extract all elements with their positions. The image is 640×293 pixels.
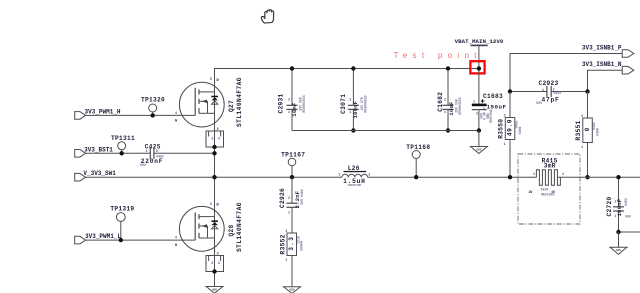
svg-text:100nF: 100nF [353,101,359,119]
wire ISNB1_P sense [510,54,622,92]
junction Q28 source/box [212,269,216,273]
wire C425 to SW node [154,152,215,154]
svg-text:GND: GND [289,289,294,292]
svg-text:50V 0402: 50V 0402 [300,189,304,204]
svg-text:TP1319: TP1319 [110,206,134,213]
svg-text:RE0000623: RE0000623 [363,95,367,112]
svg-text:0: 0 [584,127,591,132]
svg-text:2: 2 [288,99,290,103]
svg-text:1: 1 [288,111,290,115]
junction C2720 gnd [616,230,620,234]
svg-text:2: 2 [285,230,287,234]
svg-text:1: 1 [338,174,340,178]
svg-text:50V: 50V [140,163,146,167]
svg-text:RE0004655: RE0004655 [458,97,462,114]
svg-text:1: 1 [285,259,287,263]
svg-text:2: 2 [614,201,616,205]
capacitor C2923 47pF [510,80,588,105]
svg-text:R3550: R3550 [498,119,505,139]
port 3V3_ISNB1_N [582,61,634,74]
wire cap ground bus [292,130,479,132]
junction sense P [508,89,512,93]
svg-text:0402: 0402 [554,91,562,95]
svg-text:,150uF: ,150uF [483,104,507,111]
svg-text:GND: GND [476,148,481,151]
svg-text:3V3_PWM1_H: 3V3_PWM1_H [85,109,121,116]
svg-text:2: 2 [476,113,478,117]
svg-text:5: 5 [210,78,212,82]
svg-text:2: 2 [211,262,213,266]
svg-text:3V3_ISNB1_P: 3V3_ISNB1_P [582,44,622,51]
transistor Q27 [175,77,243,132]
svg-text:5: 5 [210,203,212,207]
svg-text:TP1320: TP1320 [141,97,165,104]
svg-text:GND: GND [212,288,217,291]
svg-text:C3071: C3071 [340,94,347,114]
svg-text:2: 2 [211,137,213,141]
svg-text:63mW: 63mW [595,128,599,136]
svg-text:TP1311: TP1311 [111,135,135,142]
junction SW/C425 [212,151,216,155]
testpoint TP1320 [141,97,165,118]
junction R3551 bottom on bus [585,175,589,179]
capacitor C2720 100nF [606,175,631,232]
inductor L26 1.5uH [338,165,370,187]
junction R3550 bottom on bus [508,175,512,179]
svg-text:Q28: Q28 [228,224,235,236]
svg-text:1: 1 [288,212,290,216]
svg-text:1: 1 [504,143,506,147]
svg-text:3.3: 3.3 [288,236,295,251]
junction cap gnd bus [477,128,481,132]
Q27 package pin box [205,131,224,147]
shunt resistor R415 3mR [529,158,565,197]
svg-text:RE01305: RE01305 [541,193,554,197]
svg-text:C1682: C1682 [437,92,444,112]
svg-text:0402: 0402 [624,198,628,206]
svg-text:VBAT_MAIN_12V0: VBAT_MAIN_12V0 [455,38,504,45]
wire ISNB1_N sense [588,70,623,91]
wire PWM1_L to gate [86,239,196,241]
junction red box node [477,66,481,70]
wire top bus VBAT [215,69,479,83]
svg-text:TP1168: TP1168 [406,144,430,151]
red highlight box [470,61,484,73]
svg-text:1: 1 [473,100,475,104]
svg-text:1020: 1020 [540,188,548,192]
svg-text:TP1167: TP1167 [281,152,305,159]
svg-text:C1683: C1683 [483,93,503,100]
testpoint TP1167 [281,152,305,180]
svg-text:1: 1 [581,146,583,150]
svg-text:500mW: 500mW [300,241,304,251]
svg-text:4: 4 [175,237,177,241]
svg-text:100nF: 100nF [617,199,623,217]
wire SW bus left [86,176,342,178]
svg-text:R3551: R3551 [575,120,582,140]
svg-text:1: 1 [145,150,147,154]
junction Q27 source/box [212,145,216,149]
capacitor C1683 150uF polarized [472,69,507,131]
svg-text:1: 1 [542,89,544,93]
svg-text:3V3_ISNB1_N: 3V3_ISNB1_N [582,61,622,68]
svg-text:Test point: Test point [394,51,482,60]
svg-text:1: 1 [349,111,351,115]
port 3V3_PWM1_H [75,109,121,120]
capacitor C2931 10nF [277,66,306,130]
svg-text:2: 2 [581,115,583,119]
svg-text:50V: 50V [625,215,631,219]
svg-text:STL140N4F7AG: STL140N4F7AG [236,77,243,127]
svg-text:3: 3 [218,137,220,141]
ground under C2720 [609,232,628,254]
svg-text:1: 1 [444,111,446,115]
svg-text:C2720: C2720 [606,196,613,216]
Q28 package pin box [205,256,224,272]
capacitor C3071 100nF [340,66,368,132]
capacitor C425 220nF [140,144,164,167]
svg-text:2W: 2W [529,190,533,194]
shunt resistor R415 3mR dashed box [518,154,580,224]
svg-text:2: 2 [349,99,351,103]
wire C2720 bottom to right [619,231,640,233]
ground under R3552 [283,256,302,293]
svg-text:63mW: 63mW [518,127,522,135]
wire SW bus right [557,176,640,178]
svg-text:3V3_BST1: 3V3_BST1 [84,146,113,153]
capacitor C1682 10uF [437,66,462,132]
svg-text:C2926: C2926 [279,188,286,208]
main vertical line Q27/Q28 drain-source chain [214,69,216,287]
testpoint TP1168 [406,144,430,180]
svg-text:Q27: Q27 [228,100,235,112]
svg-text:4: 4 [175,112,177,116]
svg-text:1: 1 [614,215,616,219]
svg-text:RE0001024: RE0001024 [302,95,306,112]
port 3V3_BST1 [75,146,114,157]
hand cursor [261,10,273,23]
svg-text:INDUCTOR: INDUCTOR [348,184,362,187]
svg-text:2: 2 [444,99,446,103]
junction SW bus [212,175,216,179]
svg-text:3: 3 [218,262,220,266]
port 3V3_PWM1_L [75,233,122,244]
svg-text:C2923: C2923 [538,80,558,87]
testpoint TP1311 [111,135,135,156]
wire PWM1_H to gate [86,114,196,116]
svg-text:L26: L26 [348,165,360,172]
resistor R3552 3.3 [279,230,303,262]
svg-text:GND: GND [616,249,621,252]
svg-text:2: 2 [288,197,290,201]
svg-text:47pF: 47pF [541,96,559,103]
svg-text:RE07846: RE07846 [489,109,493,122]
ground under C1683 [470,131,489,154]
svg-text:3V3_PWM1_L: 3V3_PWM1_L [85,233,121,240]
transistor Q28 [175,202,243,256]
svg-text:2: 2 [504,115,506,119]
ground under Q28 [205,287,224,293]
svg-text:STL140N4F7AG: STL140N4F7AG [236,202,243,252]
svg-text:1: 1 [205,262,207,266]
svg-text:1: 1 [533,173,535,177]
testpoint TP1319 [110,206,134,243]
resistor R3551 0 [575,92,599,178]
capacitor C2926 2.2nF [279,177,304,233]
junction sense N [585,89,589,93]
svg-text:C2931: C2931 [277,93,284,113]
wire BST1 to C425 [86,152,151,154]
svg-text:10nF: 10nF [292,102,298,116]
port V_3V3_SW1 [75,170,117,181]
svg-text:49.9: 49.9 [506,119,513,136]
resistor R3550 49.9 [498,92,522,178]
svg-text:V_3V3_SW1: V_3V3_SW1 [83,170,116,177]
power symbol VBAT_MAIN_12V0 [455,38,504,69]
svg-text:2: 2 [562,173,564,177]
svg-text:1: 1 [205,137,207,141]
svg-text:R3552: R3552 [279,234,286,254]
svg-text:3mR: 3mR [544,163,556,170]
wire SW bus mid [368,176,537,178]
port 3V3_ISNB1_P [582,44,634,57]
svg-text:50V: 50V [536,101,542,105]
